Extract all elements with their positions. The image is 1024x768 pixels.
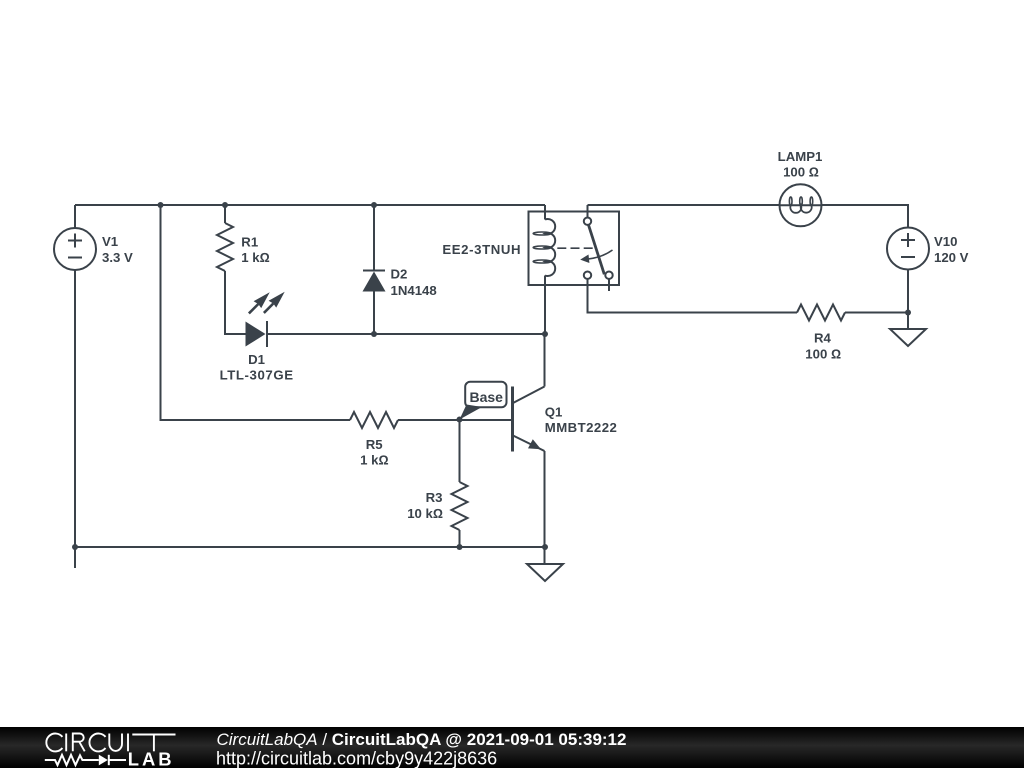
transistor Q1 [513,387,545,452]
resistor R5 [350,412,398,428]
svg-text:CircuitLabQA / CircuitLabQA @: CircuitLabQA / CircuitLabQA @ 2021-09-01… [217,730,627,749]
wire R5 right to Q1 base [398,419,511,421]
svg-text:R3: R3 [426,490,443,505]
node top rail / R1 [222,202,228,208]
ground at V10 [890,329,926,346]
wire R4 to V10 bottom node [845,312,908,314]
svg-text:100 Ω: 100 Ω [783,165,819,180]
svg-text:Q1: Q1 [545,405,563,420]
voltage source V1 [54,228,96,270]
wire switch to LAMP1 rail [588,204,780,206]
wire base net: down from top rail and across to R5 [161,205,351,420]
svg-text:120 V: 120 V [934,250,969,265]
logo CIRCUIT [46,734,175,752]
wire Q1 collector vertical [544,334,546,387]
lamp LAMP1 [780,184,822,226]
svg-text:Base: Base [469,389,503,405]
wire LAMP1 to V10 [822,205,909,228]
footer bar [0,727,1024,768]
svg-text:D2: D2 [391,266,408,281]
resistor R4 [797,305,845,321]
logo waveform icon [45,755,126,766]
wire relay coil bottom to node [544,276,546,335]
ground at Q1 emitter [527,564,563,581]
wire V10 bottom pin [907,270,909,330]
wire bottom rail [75,546,545,548]
wire top rail V1 to relay coil [75,204,545,206]
node bottom rail / R3 [457,544,463,550]
diode D2 [363,271,386,292]
wire V1 top stub [74,205,76,228]
voltage source V10 [887,228,929,270]
relay coil [533,219,555,276]
svg-text:EE2-3TNUH: EE2-3TNUH [442,242,521,257]
wire relay coil top pin [544,205,546,220]
wire switch NC stub [608,279,610,291]
svg-text:MMBT2222: MMBT2222 [545,420,618,435]
svg-text:3.3 V: 3.3 V [102,250,133,265]
node base / R3 [457,417,463,423]
junction node dots [72,202,911,550]
svg-text:1N4148: 1N4148 [391,283,437,298]
wire V1 bottom to ground rail with stub [74,270,76,568]
svg-text:LTL-307GE: LTL-307GE [220,368,294,383]
svg-text:100 Ω: 100 Ω [805,346,841,361]
relay EE2-3TNUH box [529,212,620,286]
svg-text:R4: R4 [814,330,832,345]
svg-text:1 kΩ: 1 kΩ [241,250,269,265]
LED D1 [246,292,285,347]
wire R3 bottom pin [459,530,461,547]
node V10 / R4 [905,310,911,316]
svg-text:V10: V10 [934,234,957,249]
wire switch top pin [587,205,589,218]
wire R1 bottom to LED anode [225,271,246,334]
resistor R3 [452,482,468,530]
svg-text:R1: R1 [241,235,258,250]
resistor R1 [217,223,233,271]
svg-text:1 kΩ: 1 kΩ [360,453,388,468]
wire R1 top pin [224,205,226,223]
wire LED cathode to coil-collector node [267,333,545,335]
svg-text:LAMP1: LAMP1 [778,149,823,164]
Base callout box [460,382,507,420]
svg-text:R5: R5 [366,437,383,452]
svg-text:D1: D1 [248,352,265,367]
wire Q1 emitter vertical [544,451,546,564]
node coil / collector [542,331,548,337]
wire D2 top pin [373,205,375,271]
svg-text:V1: V1 [102,234,118,249]
node bottom rail / V1 [72,544,78,550]
svg-text:http://circuitlab.com/cby9y422: http://circuitlab.com/cby9y422j8636 [216,748,497,768]
node bottom rail / emitter [542,544,548,550]
relay switch [557,218,612,279]
wire switch common to R4 [588,279,798,313]
node top rail / D2 [371,202,377,208]
wire D2 bottom pin [373,292,375,335]
node D2 / LED wire [371,331,377,337]
svg-text:LAB: LAB [128,749,175,768]
wire R3 top pin [459,420,461,482]
svg-text:10 kΩ: 10 kΩ [407,506,443,521]
node top rail / base net [158,202,164,208]
